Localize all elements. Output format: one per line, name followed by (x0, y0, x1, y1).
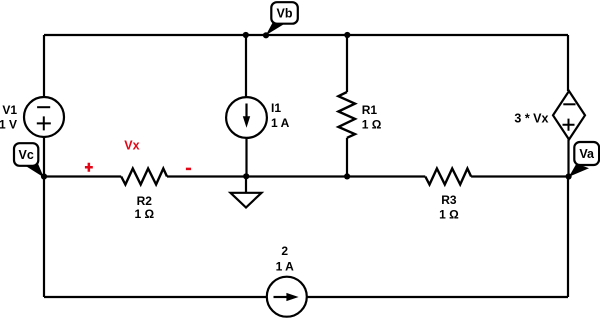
svg-text:Vx: Vx (124, 139, 139, 153)
svg-text:1 Ω: 1 Ω (439, 208, 459, 222)
junction top I1 (243, 32, 249, 38)
wire right rail mid (567, 140, 569, 177)
junction Va node (566, 173, 572, 179)
wire bottom rail right (307, 296, 568, 298)
wire I1 branch lower (245, 138, 247, 177)
svg-text:1 Ω: 1 Ω (362, 118, 382, 132)
label R3 value (439, 193, 459, 222)
junction mid ground (243, 173, 249, 179)
node Vb callout (266, 2, 298, 35)
wire mid rail right (471, 175, 568, 177)
svg-text:Vc: Vc (19, 148, 34, 162)
svg-text:Vb: Vb (277, 7, 293, 21)
junction top R1 (344, 32, 350, 38)
dependent source 3*Vx (diamond) (553, 91, 585, 140)
svg-text:2: 2 (281, 244, 288, 258)
polarity - (red) (186, 168, 191, 171)
label V1 value (0, 103, 17, 132)
node Vc callout (14, 143, 44, 177)
svg-text:V1: V1 (2, 103, 17, 117)
wire mid rail left (44, 175, 121, 177)
wire right rail lower (567, 177, 569, 298)
junction mid R1 (344, 173, 350, 179)
svg-text:Va: Va (579, 147, 595, 161)
wire left rail lower (43, 137, 45, 297)
svg-text:R2: R2 (137, 194, 153, 208)
svg-text:R3: R3 (441, 193, 457, 207)
wire top rail (44, 34, 568, 36)
wire left rail upper (43, 35, 45, 97)
resistor R1 (338, 92, 355, 138)
svg-text:3 * Vx: 3 * Vx (514, 112, 548, 126)
wire right rail upper (567, 35, 569, 91)
node Va callout (569, 142, 599, 177)
current source 2 (bottom) (267, 277, 307, 317)
resistor R3 (425, 169, 471, 185)
label I1 value (271, 101, 290, 130)
wire I1 branch upper (245, 35, 247, 97)
svg-text:1 A: 1 A (276, 259, 295, 273)
wire R1 branch lower (346, 138, 348, 177)
svg-text:1 A: 1 A (271, 116, 290, 130)
label 2 value (276, 244, 295, 273)
wire bottom rail left (44, 296, 267, 298)
svg-text:1 V: 1 V (0, 118, 17, 132)
label R1 value (362, 103, 382, 131)
current source I1 (226, 97, 267, 138)
ground (231, 177, 262, 208)
junction Vc node (41, 173, 47, 179)
junction top Vb (263, 32, 269, 38)
wire mid rail center (167, 175, 425, 177)
wire R1 branch upper (346, 35, 348, 92)
svg-text:1 Ω: 1 Ω (134, 207, 154, 221)
resistor R2 (121, 169, 167, 185)
label R2 value (134, 194, 154, 221)
svg-text:I1: I1 (271, 101, 281, 115)
polarity + (red) (85, 163, 93, 172)
voltage source V1 (24, 97, 64, 137)
svg-text:R1: R1 (362, 103, 378, 117)
